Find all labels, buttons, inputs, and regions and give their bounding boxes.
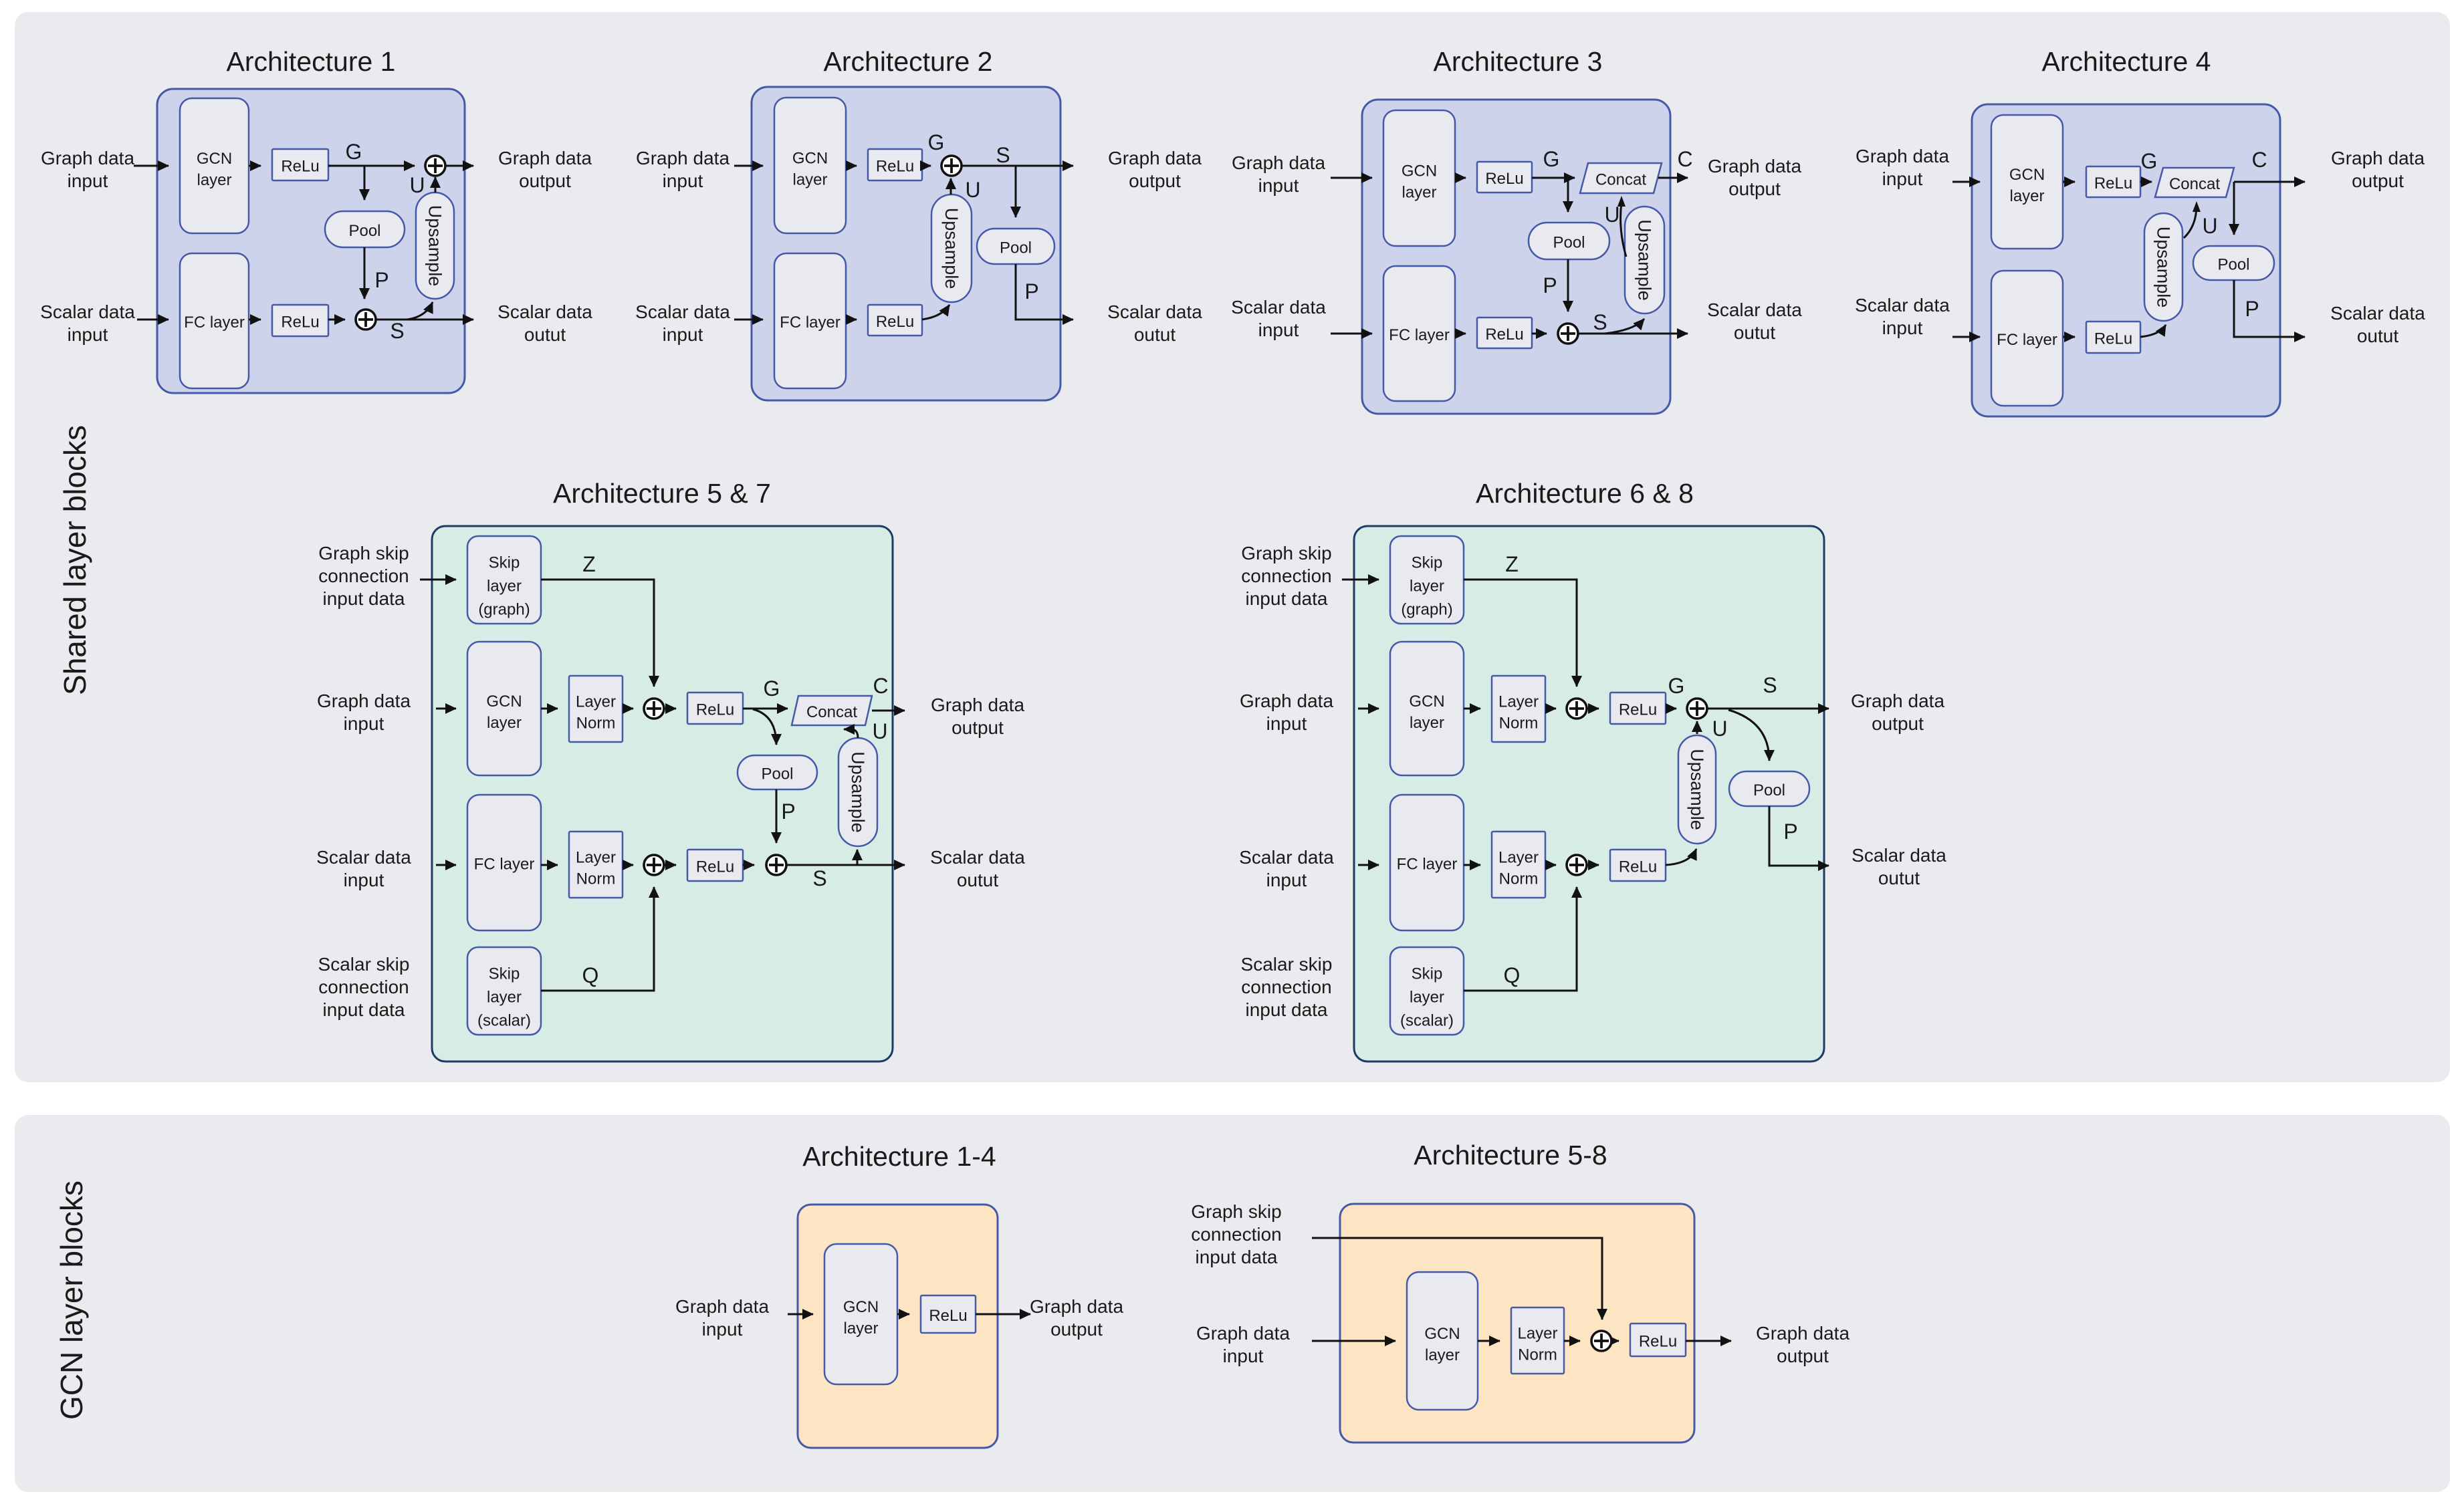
svg-text:Layer: Layer <box>1517 1325 1557 1343</box>
svg-text:Graph data: Graph data <box>1232 152 1326 173</box>
svg-text:GCN: GCN <box>486 693 522 711</box>
svg-text:U: U <box>965 178 980 202</box>
arch6 add node graph left <box>1567 699 1587 719</box>
svg-text:Graph data: Graph data <box>1196 1323 1291 1344</box>
arch6 wire add to graph output <box>1706 708 1829 710</box>
arch3 Scalar data outut label <box>1707 299 1802 343</box>
arch3 FC layer box <box>1383 266 1455 401</box>
arch2 Upsample <box>931 195 972 302</box>
svg-text:Upsample: Upsample <box>425 205 445 287</box>
svg-text:Graph data: Graph data <box>1851 691 1945 711</box>
svg-text:Scalar data: Scalar data <box>40 301 135 322</box>
svg-text:Scalar data: Scalar data <box>1107 301 1202 322</box>
svg-text:input: input <box>1258 175 1299 196</box>
arch3 wire scalar input <box>1331 333 1372 335</box>
svg-text:Upsample: Upsample <box>1635 219 1655 301</box>
svg-text:GCN: GCN <box>197 150 232 168</box>
arch6 wire Layer Norm to add scalar <box>1545 864 1556 866</box>
arch5 block background <box>432 526 893 1061</box>
svg-text:Z: Z <box>582 552 596 576</box>
svg-text:G: G <box>2141 149 2158 173</box>
gcn5-8 GCN layer box <box>1407 1272 1478 1410</box>
svg-text:Concat: Concat <box>2169 175 2220 193</box>
arch1 FC layer box <box>180 253 249 388</box>
gcn5-8 add node <box>1591 1331 1611 1351</box>
arch6 wire Pool to scalar output <box>1769 806 1829 866</box>
svg-text:layer: layer <box>792 171 827 189</box>
arch5 ReLu box (graph) <box>687 693 743 724</box>
svg-text:GCN: GCN <box>1424 1325 1460 1343</box>
svg-text:input: input <box>1266 713 1307 734</box>
gcn5-8 wire Layer Norm to add <box>1564 1340 1580 1342</box>
svg-text:Graph data: Graph data <box>317 691 411 711</box>
svg-text:(scalar): (scalar) <box>477 1012 531 1030</box>
svg-text:connection: connection <box>1191 1224 1281 1245</box>
svg-text:U: U <box>1604 203 1619 227</box>
svg-text:Skip: Skip <box>1412 965 1443 983</box>
arch3 wire ReLu to add <box>1532 333 1547 335</box>
svg-text:FC layer: FC layer <box>1397 856 1458 874</box>
svg-text:output: output <box>951 717 1004 738</box>
svg-text:FC layer: FC layer <box>474 856 535 874</box>
svg-text:input data: input data <box>323 999 405 1020</box>
svg-text:layer: layer <box>1410 714 1444 732</box>
svg-text:output: output <box>1872 713 1924 734</box>
arch4 Pool <box>2193 246 2274 280</box>
svg-text:input data: input data <box>1196 1247 1278 1267</box>
arch5 wire ReLu to Concat <box>743 708 788 710</box>
gcn1-4 wire ReLu to graph output <box>976 1313 1030 1315</box>
svg-text:input data: input data <box>323 588 405 609</box>
gcn5-8 Graph data output label <box>1756 1323 1850 1366</box>
svg-text:Upsample: Upsample <box>2154 227 2174 308</box>
svg-text:GCN layer blocks: GCN layer blocks <box>54 1180 89 1420</box>
svg-text:Scalar data: Scalar data <box>1852 845 1946 866</box>
gcn1-4 wire graph input <box>788 1313 813 1315</box>
svg-text:Scalar data: Scalar data <box>1231 297 1326 318</box>
arch2 wire Upsample to add <box>950 178 952 195</box>
arch1 Graph data input label <box>41 148 135 191</box>
svg-text:Architecture 5-8: Architecture 5-8 <box>1414 1140 1607 1170</box>
arch5 Pool <box>738 755 817 789</box>
svg-text:Norm: Norm <box>576 715 616 733</box>
arch6 Layer Norm box (scalar) <box>1492 832 1545 898</box>
gcn1-4 Graph data input label <box>675 1296 770 1340</box>
svg-text:Architecture 1-4: Architecture 1-4 <box>802 1141 996 1172</box>
svg-text:input: input <box>68 170 108 191</box>
svg-text:Graph data: Graph data <box>1108 148 1202 168</box>
svg-text:Concat: Concat <box>1595 171 1646 189</box>
svg-text:S: S <box>996 143 1010 167</box>
arch4 wire scalar input <box>1952 336 1980 338</box>
arch5 Concat <box>792 696 872 725</box>
arch4 ReLu box (graph) <box>2086 166 2140 197</box>
arch6 block background <box>1354 526 1824 1061</box>
svg-text:G: G <box>928 130 945 154</box>
arch6 Scalar data outut label <box>1852 845 1946 888</box>
arch5 GCN layer box <box>467 642 541 775</box>
arch6 Scalar skip connection input data label <box>1241 954 1333 1020</box>
gcn1-4 Graph data output label <box>1030 1296 1124 1340</box>
svg-text:layer: layer <box>487 714 522 732</box>
arch1 add node scalar <box>356 309 376 330</box>
arch6 ReLu box (graph) <box>1610 693 1666 724</box>
arch6 wire graph skip input <box>1342 579 1379 581</box>
arch4 FC layer box <box>1991 271 2063 406</box>
svg-text:U: U <box>409 173 425 197</box>
svg-text:G: G <box>346 140 362 164</box>
svg-text:input: input <box>1882 318 1923 338</box>
arch5 Scalar data outut label <box>930 847 1025 890</box>
svg-text:ReLu: ReLu <box>1619 858 1657 876</box>
arch2 Graph data output label <box>1108 148 1202 191</box>
arch1 ReLu box (scalar) <box>272 305 328 336</box>
arch6 GCN layer box <box>1390 642 1464 775</box>
arch5 wire add to ReLu <box>663 708 676 710</box>
svg-text:ReLu: ReLu <box>2094 174 2132 193</box>
svg-text:ReLu: ReLu <box>2094 330 2132 348</box>
arch2 ReLu box (scalar) <box>868 305 922 336</box>
svg-text:ReLu: ReLu <box>696 858 734 876</box>
svg-text:FC layer: FC layer <box>1997 331 2057 349</box>
arch6 Graph data output label <box>1851 691 1945 734</box>
arch2 wire Pool to scalar output <box>1016 264 1073 320</box>
svg-text:Graph data: Graph data <box>675 1296 770 1317</box>
svg-text:P: P <box>2245 297 2259 321</box>
svg-text:Pool: Pool <box>348 222 380 240</box>
svg-text:Scalar data: Scalar data <box>316 847 411 868</box>
gcn5-8 wire graph skip connection <box>1312 1238 1602 1320</box>
GCN layer blocks panel <box>15 1115 2450 1492</box>
arch6 ReLu box (scalar) <box>1610 850 1666 881</box>
arch1 Scalar data outut label <box>497 301 592 345</box>
arch2 add node graph <box>941 156 962 176</box>
svg-text:Q: Q <box>582 963 599 987</box>
arch5 Graph data input label <box>317 691 411 734</box>
svg-text:Scalar data: Scalar data <box>1855 295 1950 316</box>
svg-text:output: output <box>1728 178 1781 199</box>
gcn1-4 ReLu box <box>921 1295 976 1333</box>
arch3 wire GCN to ReLu <box>1455 177 1466 179</box>
svg-text:Upsample: Upsample <box>941 208 962 289</box>
arch5 wire ReLu to add S <box>743 864 754 866</box>
arch3 Scalar data input label <box>1231 297 1326 340</box>
arch4 block background <box>1972 104 2280 416</box>
svg-text:GCN: GCN <box>1409 693 1444 711</box>
arch6 Upsample <box>1678 735 1716 844</box>
arch5 wire Concat to graph output <box>872 710 905 712</box>
svg-text:ReLu: ReLu <box>696 701 734 719</box>
svg-text:connection: connection <box>1241 566 1331 586</box>
arch5 FC layer box <box>467 795 541 930</box>
svg-text:P: P <box>781 799 795 824</box>
svg-text:Z: Z <box>1505 552 1519 576</box>
arch2 wire S branch down to Pool <box>1015 166 1017 217</box>
svg-text:ReLu: ReLu <box>281 158 319 176</box>
svg-text:input data: input data <box>1246 999 1328 1020</box>
svg-text:GCN: GCN <box>843 1298 879 1316</box>
arch2 wire ReLu hook to Upsample <box>922 305 949 320</box>
arch3 block background <box>1362 100 1670 414</box>
arch1 wire GCN to ReLu <box>249 165 261 167</box>
svg-text:Norm: Norm <box>1518 1346 1557 1364</box>
svg-text:P: P <box>374 268 388 292</box>
arch3 arrowhead into Concat <box>1617 196 1626 207</box>
arch1 GCN layer box <box>180 98 249 233</box>
svg-text:outut: outut <box>1878 868 1920 888</box>
gcn5-8 ReLu box <box>1630 1324 1686 1356</box>
svg-text:Concat: Concat <box>806 703 857 721</box>
arch6 wire add to ReLu scalar <box>1586 864 1599 866</box>
arch3 wire ReLu to Concat <box>1532 177 1575 179</box>
svg-text:Architecture 2: Architecture 2 <box>824 46 993 77</box>
svg-text:Norm: Norm <box>1499 870 1539 888</box>
arch5 Graph skip connection input data label <box>318 543 409 609</box>
arch5 wire add to ReLu scalar <box>663 864 676 866</box>
arch4 Graph data output label <box>2331 148 2425 191</box>
arch4 wire ReLu hook to Upsample <box>2140 325 2166 337</box>
svg-text:U: U <box>2202 214 2217 238</box>
svg-text:Layer: Layer <box>1498 849 1539 867</box>
svg-text:Architecture 3: Architecture 3 <box>1434 46 1603 77</box>
svg-text:Pool: Pool <box>2217 256 2249 274</box>
svg-text:Graph data: Graph data <box>1708 156 1802 176</box>
svg-text:layer: layer <box>1410 989 1444 1007</box>
arch6 wire ReLu to add S <box>1666 708 1676 710</box>
arch3 Pool <box>1529 223 1609 259</box>
svg-text:GCN: GCN <box>792 150 828 168</box>
svg-text:C: C <box>2251 148 2267 172</box>
arch5 wire Upsample hook to Concat <box>844 729 858 738</box>
arch1 Pool <box>325 211 405 247</box>
svg-text:Graph data: Graph data <box>41 148 135 168</box>
arch6 wire ReLu hook to Upsample <box>1666 849 1696 865</box>
arch3 Upsample <box>1625 207 1664 314</box>
arch3 ReLu box (graph) <box>1477 162 1532 193</box>
svg-text:Architecture 1: Architecture 1 <box>227 46 396 77</box>
svg-text:layer: layer <box>487 989 522 1007</box>
svg-text:Graph data: Graph data <box>636 148 730 168</box>
svg-text:input: input <box>663 170 703 191</box>
arch1 wire ReLu to add <box>328 165 415 167</box>
arch5 Scalar skip connection input data label <box>318 954 410 1020</box>
svg-text:G: G <box>1543 147 1560 171</box>
svg-text:ReLu: ReLu <box>876 158 914 176</box>
arch5 wire GCN to Layer Norm <box>541 708 558 710</box>
svg-text:P: P <box>1783 820 1797 844</box>
arch4 Scalar data input label <box>1855 295 1950 338</box>
arch5 wire Layer Norm to add <box>623 708 633 710</box>
arch6 wire graph input <box>1358 708 1379 710</box>
arch5 Skip layer scalar box <box>467 947 541 1035</box>
svg-text:Pool: Pool <box>761 765 793 783</box>
arch3 wire Pool to add <box>1567 259 1569 311</box>
arch2 wire add to graph output <box>961 165 1073 167</box>
svg-text:Upsample: Upsample <box>1687 749 1707 830</box>
svg-text:input: input <box>702 1319 743 1340</box>
svg-text:FC layer: FC layer <box>780 314 841 332</box>
svg-text:connection: connection <box>1241 977 1331 997</box>
arch5 Layer Norm box (scalar) <box>569 832 623 898</box>
svg-text:outut: outut <box>524 324 566 345</box>
arch4 wire C branch down to Pool <box>2233 182 2235 235</box>
gcn5-8 wire GCN to Layer Norm <box>1478 1340 1500 1342</box>
svg-text:Scalar data: Scalar data <box>497 301 592 322</box>
svg-text:input: input <box>663 324 703 345</box>
arch1 wire graph input <box>134 165 169 167</box>
svg-text:Graph skip: Graph skip <box>318 543 409 563</box>
svg-text:connection: connection <box>318 566 409 586</box>
svg-text:Scalar data: Scalar data <box>635 301 730 322</box>
arch2 wire scalar input <box>734 319 763 321</box>
svg-text:G: G <box>764 676 780 701</box>
svg-text:ReLu: ReLu <box>1619 701 1657 719</box>
arch1 block background <box>157 89 465 393</box>
shared layer blocks panel <box>15 12 2450 1082</box>
arch3 wire add to scalar output <box>1579 333 1688 335</box>
svg-text:Layer: Layer <box>576 849 616 867</box>
gcn5-8 wire add to ReLu <box>1613 1340 1619 1342</box>
arch1 ReLu box (graph) <box>272 149 328 180</box>
svg-text:(scalar): (scalar) <box>1400 1012 1454 1030</box>
svg-text:Pool: Pool <box>1753 781 1785 799</box>
svg-text:C: C <box>873 674 888 698</box>
svg-text:input data: input data <box>1246 588 1328 609</box>
svg-text:input: input <box>344 713 384 734</box>
arch6 Layer Norm box (graph) <box>1492 676 1545 742</box>
arch5 Skip layer graph box <box>467 536 541 624</box>
svg-text:Graph data: Graph data <box>1856 146 1950 166</box>
arch1 wire add to scalar output <box>375 319 473 321</box>
arch2 Pool <box>977 229 1054 264</box>
arch4 arrowhead into Concat <box>2193 201 2201 212</box>
svg-text:Scalar skip: Scalar skip <box>318 954 410 975</box>
arch4 wire GCN to ReLu <box>2063 181 2075 183</box>
arch6 Skip layer scalar box <box>1390 947 1464 1035</box>
arch2 Graph data input label <box>636 148 730 191</box>
arch2 Scalar data outut label <box>1107 301 1202 345</box>
arch1 Scalar data input label <box>40 301 135 345</box>
arch1 Upsample <box>416 193 454 299</box>
arch2 wire ReLu to add <box>922 165 931 167</box>
arch5 wire graph skip input <box>420 579 456 581</box>
arch3 Concat <box>1580 163 1662 193</box>
arch5 add node scalar left <box>644 855 664 875</box>
arch5 Graph data output label <box>931 695 1025 738</box>
svg-text:input: input <box>344 870 384 890</box>
svg-text:Upsample: Upsample <box>848 751 868 833</box>
arch5 wire scalar input <box>436 864 456 866</box>
svg-text:ReLu: ReLu <box>876 313 914 331</box>
svg-text:S: S <box>1593 310 1607 334</box>
svg-text:Norm: Norm <box>576 870 616 888</box>
arch3 wire Upsample hook to Concat <box>1621 203 1626 257</box>
svg-text:Skip: Skip <box>489 554 520 572</box>
arch6 Pool <box>1729 771 1809 806</box>
svg-text:ReLu: ReLu <box>1485 326 1523 344</box>
arch6 FC layer box <box>1390 795 1464 930</box>
arch3 wire graph input <box>1331 177 1372 179</box>
svg-text:layer: layer <box>197 171 231 189</box>
svg-text:input: input <box>1266 870 1307 890</box>
arch4 wire FC to ReLu <box>2063 336 2075 338</box>
arch3 ReLu box (scalar) <box>1477 318 1532 348</box>
arch6 Skip layer graph box <box>1390 536 1464 624</box>
arch5 Scalar data input label <box>316 847 411 890</box>
arch6 wire GCN to Layer Norm <box>1464 708 1480 710</box>
arch5 wire S riser to Upsample <box>857 850 859 865</box>
svg-text:layer: layer <box>1425 1346 1460 1364</box>
arch3 wire FC to ReLu <box>1455 333 1466 335</box>
svg-text:input: input <box>1882 168 1923 189</box>
svg-text:layer: layer <box>1410 578 1444 596</box>
arch1 wire Pool to add scalar <box>364 247 366 299</box>
arch6 add node graph right <box>1687 699 1707 719</box>
arch6 wire Layer Norm to add <box>1545 708 1556 710</box>
svg-text:ReLu: ReLu <box>1639 1333 1677 1351</box>
svg-text:Layer: Layer <box>1498 693 1539 711</box>
svg-text:Graph data: Graph data <box>1756 1323 1850 1344</box>
svg-text:output: output <box>1129 170 1181 191</box>
arch5 Upsample <box>838 738 877 846</box>
arch3 Graph data output label <box>1708 156 1802 199</box>
svg-text:G: G <box>1668 674 1685 698</box>
arch2 ReLu box (graph) <box>868 149 922 180</box>
gcn5-8 wire ReLu to graph output <box>1686 1340 1731 1342</box>
arch4 Graph data input label <box>1856 146 1950 189</box>
arch5 wire Skip layer to add (Z) <box>541 580 654 686</box>
arch5 wire G hook to Pool <box>753 709 776 745</box>
arch2 block background <box>752 87 1060 400</box>
arch5 add node scalar right <box>766 855 786 875</box>
svg-text:outut: outut <box>957 870 998 890</box>
arch4 Concat <box>2155 168 2234 197</box>
svg-text:S: S <box>812 866 826 890</box>
arch4 wire Concat to graph output <box>2234 181 2305 183</box>
arch1 add node graph <box>425 156 445 176</box>
arch2 wire FC to ReLu <box>846 319 857 321</box>
gcn5-8 Layer Norm box <box>1511 1307 1564 1374</box>
svg-text:FC layer: FC layer <box>184 314 245 332</box>
svg-text:Graph skip: Graph skip <box>1191 1201 1281 1222</box>
arch3 GCN layer box <box>1383 110 1455 246</box>
gcn5-8 Graph data input label <box>1196 1323 1291 1366</box>
arch6 Graph data input label <box>1240 691 1334 734</box>
arch1 wire add to graph output <box>445 165 473 167</box>
arch1 wire Upsample to add <box>435 177 437 193</box>
arch4 wire graph input <box>1952 181 1980 183</box>
svg-text:output: output <box>1777 1346 1829 1366</box>
arch3 wire Concat to graph output <box>1658 177 1688 179</box>
svg-text:U: U <box>1712 717 1727 741</box>
arch5 Layer Norm box (graph) <box>569 676 623 742</box>
arch5 wire Skip scalar to add (Q) <box>541 887 654 991</box>
svg-text:Graph data: Graph data <box>498 148 592 168</box>
svg-text:input: input <box>1223 1346 1264 1366</box>
arch6 wire add to ReLu <box>1586 708 1599 710</box>
svg-text:Pool: Pool <box>1553 234 1585 252</box>
arch4 wire ReLu to Concat <box>2140 181 2152 183</box>
arch3 Graph data input label <box>1232 152 1326 196</box>
svg-text:ReLu: ReLu <box>929 1307 967 1325</box>
svg-text:connection: connection <box>318 977 409 997</box>
svg-text:P: P <box>1024 279 1038 303</box>
svg-text:outut: outut <box>1734 322 1775 343</box>
arch6 wire scalar input <box>1358 864 1379 866</box>
arch6 wire Skip scalar to add (Q) <box>1464 887 1577 991</box>
arch1 wire scalar input <box>137 319 169 321</box>
arch2 Scalar data input label <box>635 301 730 345</box>
